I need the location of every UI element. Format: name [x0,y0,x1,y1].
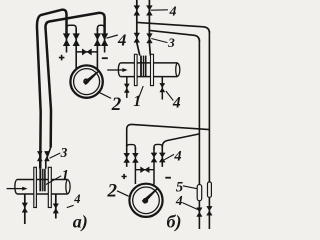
gauge a hub [84,79,88,83]
svg-text:3: 3 [60,145,68,160]
gauge b hub [143,199,147,203]
svg-text:1: 1 [62,167,69,183]
valve 4 on purge stub left a [63,34,69,46]
valve 4 riser left top b [134,6,140,16]
wire purge stub right pair a [104,30,106,53]
leader to label 2 a [98,92,111,99]
drain valve 4 left a [22,203,27,212]
gauge 2 (differential manometer, scheme b) outer ring [129,184,162,217]
orifice flange left b [134,54,137,85]
svg-text:1: 1 [133,93,141,110]
valve riser right second b [147,34,153,43]
svg-text:2: 2 [107,180,118,201]
valve 4 purge right b [159,153,165,162]
minus sign a [102,57,108,59]
drain valve 4 right b [160,83,165,92]
valve 4 on gauge feed right a [94,34,100,46]
gauge a inner ring [74,69,100,95]
svg-text:б): б) [167,211,182,232]
leader to label 4 drain b [166,91,173,101]
orifice plate 1 bars b [140,56,142,76]
orifice pipe a: top line [17,179,68,181]
wire gauge feed right b [153,147,155,185]
orifice flange right b [151,54,154,85]
leader to label 3 b [151,39,167,43]
minus sign b [165,177,171,179]
drain valve 4 right a [53,204,58,213]
valve 4 left column bottom b [197,208,202,217]
svg-text:3: 3 [167,35,175,50]
wire impulse pipe A (plus side, scheme a) [37,10,67,169]
orifice pipe a: right cap [66,180,70,195]
orifice plate 1 bars a [39,169,41,192]
wire transfer line 1 b (left riser to right column) [137,22,210,32]
wire drain stub right b [161,77,163,100]
gauge b needle [142,188,157,203]
wire tap riser right a (slanted) [46,148,51,169]
wire arch right pair b [154,144,162,149]
vessel 5 right column b [208,182,212,198]
plus sign b [122,174,127,179]
valve 4 right column bottom b [207,206,212,215]
wire right column b [208,31,210,229]
svg-text:4: 4 [175,193,183,208]
wire impulse pipe B (minus side, scheme a) [45,13,104,148]
wire drain stub right a [55,194,57,219]
leader to label 2 b [117,191,129,196]
leader to label 4 gauge block b [164,154,174,159]
orifice pipe b: right cap [176,63,180,77]
gauge a needle [84,70,100,84]
tap valve right a [45,151,50,161]
leader to label 1 a [46,176,61,185]
wire arch left pair a [67,25,77,31]
valve 4 riser right top b [147,6,153,16]
gauge b inner ring [133,187,160,214]
orifice pipe b: left cap [118,63,120,77]
svg-text:4: 4 [73,192,80,206]
wire arch right pair a [97,25,104,31]
wire equalizing bridge a [76,51,97,53]
valve 4 feed right b [151,153,157,162]
orifice pipe a: bottom line [17,193,68,195]
leader to label 4 top b [151,9,168,11]
svg-text:4: 4 [173,149,181,165]
orifice pipe a: left cap [15,180,17,195]
leader to label 4 drain a [67,205,74,207]
leader to label 3 a [50,153,61,158]
wire gauge feed right a [96,28,98,70]
svg-text:4: 4 [117,30,127,49]
leader to label 1 b [138,86,143,100]
svg-text:2: 2 [111,94,122,115]
orifice pipe b: top line [120,62,177,64]
leader to label 5 b [183,186,197,189]
svg-text:4: 4 [169,5,177,20]
orifice flange left a [34,167,37,207]
wire drain stub left a [24,194,26,224]
valve 4 on gauge feed left a [73,34,79,46]
valve 4 on purge stub right a [102,34,108,46]
wire arch left pair b [127,145,136,150]
wire drain stub left b [126,77,128,98]
leader to label 4 columns b [182,203,198,210]
valve riser left second b [134,33,140,42]
plus sign a [59,55,65,61]
equalizing valve a [82,49,91,55]
wire left column b [198,40,200,230]
wire gauge feed left b [134,147,136,184]
wire equalizing bridge b [135,169,154,171]
orifice pipe b: bottom line [120,76,177,78]
svg-text:4: 4 [172,95,181,112]
wire transfer line 3 b (right column to gauge block left) [127,124,210,167]
vessel 5 left column b [197,185,202,201]
flow arrow b [107,69,122,71]
leader to label 4 top a [107,35,118,38]
drain valve 4 left b [124,84,129,93]
wire impulse riser right b [149,0,150,56]
wire transfer line 2 b (right riser to left column) [149,30,199,41]
wire purge stub left pair a [66,30,68,53]
equalizing valve b [141,167,150,172]
orifice flange right a [48,167,51,207]
wire impulse riser left b [137,0,140,56]
svg-text:а): а) [73,212,88,233]
wire transfer line 4 b (left column to gauge block right) [162,134,199,167]
valve 4 feed left b [133,153,139,162]
tap valve left a [37,151,42,161]
flow arrow a [7,188,23,190]
wire gauge feed left a [75,28,77,70]
valve 4 purge left b [124,153,130,162]
gauge 2 (differential manometer, scheme a) outer ring [70,65,102,97]
